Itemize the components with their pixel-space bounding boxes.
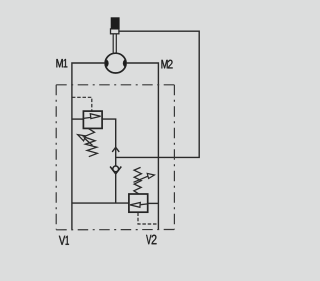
shaft end plug	[111, 17, 120, 29]
check valve CV1 seat	[110, 167, 121, 174]
pilot line of relief valve RV2 (dashed)	[138, 213, 158, 225]
valve block envelope (dash-dot boundary)	[56, 85, 174, 230]
hydraulic motor U1 (body circle)	[105, 53, 126, 73]
wire: RV1 left port	[72, 118, 83, 120]
motor shaft (double line)	[112, 34, 114, 54]
relief valve RV1 body	[83, 111, 102, 128]
flow direction arrow (on check valve branch)	[112, 147, 119, 152]
pilot line of relief valve RV1 (dashed)	[72, 97, 92, 111]
label M1	[56, 59, 67, 67]
shaft collar	[111, 29, 119, 34]
RV1 flow arrow (inside body)	[83, 117, 91, 118]
RV2 spring	[134, 167, 142, 194]
wire: case drain loop from plug to check-valve junction	[116, 31, 200, 157]
wire: check valve to RV2 inlet line	[115, 174, 117, 203]
label V1	[59, 236, 69, 245]
RV1 adjustment arrow	[85, 138, 93, 145]
check valve CV1 ball	[113, 166, 119, 172]
wire: RV2 right port	[148, 202, 158, 204]
RV2 flow arrow (inside body)	[141, 203, 148, 206]
wire: M1 port line down to V1	[72, 63, 105, 229]
wire: RV1 right port down to check valve	[102, 119, 115, 166]
wire: RV2 left port line to M1 branch	[72, 202, 129, 204]
RV2 adjustment arrow	[134, 176, 148, 182]
wire: M2 port line down to V2	[126, 63, 158, 229]
motor left lobe	[105, 60, 108, 67]
label V2	[146, 235, 156, 244]
label M2	[162, 60, 173, 69]
motor right lobe	[123, 60, 126, 67]
RV1 spring	[84, 128, 98, 156]
relief valve RV2 body	[129, 194, 148, 212]
